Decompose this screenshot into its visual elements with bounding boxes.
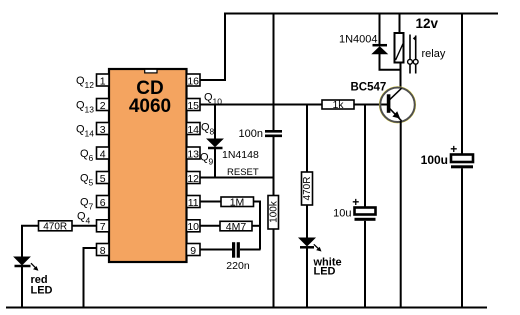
pin 11 <box>187 196 201 209</box>
svg-text:100n: 100n <box>239 128 263 140</box>
wire pin9 to 220n <box>200 249 232 251</box>
wire top +12v rail <box>224 13 498 15</box>
svg-text:4060: 4060 <box>129 96 171 117</box>
svg-text:8: 8 <box>100 245 106 257</box>
wire 1M to junction column <box>254 202 261 250</box>
svg-text:100k: 100k <box>269 200 280 223</box>
wire 4M7 to junction column <box>252 225 260 227</box>
pin 1 <box>97 74 110 87</box>
pin 9 <box>187 244 201 257</box>
pin 7 <box>97 220 110 233</box>
svg-text:15: 15 <box>187 100 199 112</box>
wire pin10 to 4M7 <box>200 225 220 227</box>
svg-text:5: 5 <box>100 173 106 185</box>
resistor 4M7 <box>220 221 252 233</box>
wire relay coil to transistor collector <box>400 63 402 89</box>
pin 8 <box>97 244 110 257</box>
svg-text:7: 7 <box>100 221 106 233</box>
wire 10u to ground rail <box>364 221 366 308</box>
resistor R3 1k <box>322 99 354 111</box>
resistor 470R (white LED) vertical <box>302 172 314 205</box>
wire 470R to white LED <box>306 205 308 239</box>
node Q14 label <box>76 124 94 139</box>
svg-text:1M: 1M <box>230 197 245 209</box>
wire 1N4004 anode down and over to coil <box>380 54 402 70</box>
pin 2 <box>97 99 110 112</box>
node Q6 label <box>80 148 94 163</box>
relay K1 coil <box>395 33 405 63</box>
svg-text:12: 12 <box>85 80 95 90</box>
svg-text:8: 8 <box>210 127 215 137</box>
transistor Q1 BC547 <box>380 87 416 123</box>
LED D4 white <box>299 238 321 252</box>
diode D2 1N4148 <box>207 139 222 148</box>
capacitor C2 100n <box>239 128 282 140</box>
svg-text:1: 1 <box>100 75 106 87</box>
svg-text:12v: 12v <box>416 16 439 31</box>
svg-text:13: 13 <box>187 148 199 160</box>
svg-text:4: 4 <box>100 148 106 160</box>
wire +12v rail to relay coil <box>399 14 401 34</box>
wire pin16 to +12v rail <box>200 14 225 81</box>
svg-text:6: 6 <box>100 197 106 209</box>
svg-text:4: 4 <box>86 216 91 226</box>
wire 220n to junction column <box>240 249 261 251</box>
svg-text:7: 7 <box>89 202 94 212</box>
svg-text:3: 3 <box>100 124 106 136</box>
svg-text:9: 9 <box>190 245 196 257</box>
pin 16 <box>187 74 201 87</box>
label 1N4148 <box>222 149 259 161</box>
node Q12 label <box>76 75 94 90</box>
wire +12v drop to 100n / 100k column <box>273 14 275 131</box>
node Q13 label <box>76 100 94 115</box>
pin 13 <box>187 147 201 160</box>
node Q9 label <box>200 152 214 167</box>
label relay <box>422 48 446 60</box>
svg-text:470R: 470R <box>302 177 313 201</box>
svg-text:RESET: RESET <box>227 167 259 178</box>
capacitor C3 220n <box>226 242 250 272</box>
wire 470R white-led branch from Q10 wire <box>306 105 308 173</box>
wire +12v rail right drop to 100u <box>461 14 463 155</box>
wire 1N4004 branch from +12v rail <box>379 14 381 46</box>
wire Q10 pin15 to transistor base <box>200 104 388 106</box>
svg-text:10: 10 <box>187 221 199 233</box>
svg-text:LED: LED <box>31 284 53 296</box>
label RESET <box>227 167 259 178</box>
label 1N4004 <box>339 34 378 46</box>
wire 100u to ground rail <box>461 168 463 307</box>
resistor 470R (red LED) horizontal <box>39 221 73 233</box>
relay K1 contact left <box>408 35 413 74</box>
IC U1 CD4060 body <box>109 69 187 262</box>
label BC547 <box>351 82 387 94</box>
svg-text:220n: 220n <box>226 260 250 272</box>
wire bottom ground rail <box>6 307 487 309</box>
wire 100n to 100k <box>273 137 275 196</box>
node Q8 label <box>201 122 215 137</box>
wire red LED to ground rail <box>21 267 23 308</box>
wire transistor emitter to ground rail <box>400 121 402 308</box>
diode D1 1N4004 (flyback, cathode up) <box>373 45 388 54</box>
label white LED <box>313 257 342 278</box>
pin 14 <box>187 123 201 136</box>
wire white LED to ground rail <box>306 249 308 308</box>
svg-text:10u: 10u <box>333 208 351 220</box>
wire pin11 to 1M <box>200 201 221 203</box>
svg-text:4M7: 4M7 <box>226 221 247 233</box>
wire 1N4148 branch from Q10 wire <box>214 105 216 140</box>
relay K1 contact right with armature arrow <box>413 35 418 73</box>
pin 5 <box>97 172 110 185</box>
label 12v supply <box>416 16 439 31</box>
svg-text:13: 13 <box>85 105 95 115</box>
svg-text:12: 12 <box>187 173 199 185</box>
svg-text:16: 16 <box>187 75 199 87</box>
node Q10 label <box>204 92 222 107</box>
wire 470R left down to red LED <box>22 226 39 258</box>
pin 6 <box>97 196 110 209</box>
wire 470R to pin7 <box>72 225 97 227</box>
wire 100k to ground rail <box>273 229 275 308</box>
svg-text:6: 6 <box>89 153 94 163</box>
svg-text:1N4148: 1N4148 <box>222 149 259 161</box>
pin 3 <box>97 123 110 136</box>
svg-text:1N4004: 1N4004 <box>339 34 378 46</box>
LED D3 red <box>14 257 38 271</box>
svg-text:relay: relay <box>422 48 446 60</box>
pin 4 <box>97 147 110 160</box>
wire RESET pin12 to 100k line <box>200 177 274 179</box>
capacitor C4 10u electrolytic <box>333 195 375 221</box>
svg-text:11: 11 <box>188 197 199 209</box>
svg-text:9: 9 <box>209 157 214 167</box>
capacitor C5 100u electrolytic <box>421 142 473 168</box>
pin 15 <box>187 99 201 112</box>
svg-text:LED: LED <box>314 265 336 277</box>
node Q7 label <box>80 197 94 212</box>
label red LED <box>31 274 53 296</box>
pin 12 <box>187 172 201 185</box>
pin 10 <box>187 220 201 233</box>
svg-text:14: 14 <box>85 129 95 139</box>
svg-text:BC547: BC547 <box>351 82 387 94</box>
svg-text:1k: 1k <box>332 99 344 111</box>
svg-text:100u: 100u <box>421 153 448 167</box>
node Q5 label <box>80 173 94 188</box>
resistor 1M <box>221 197 254 209</box>
svg-text:470R: 470R <box>43 221 67 232</box>
wire 10u branch from base wire <box>364 105 366 208</box>
wire 1N4148 cathode to RESET wire <box>214 149 216 178</box>
svg-text:5: 5 <box>89 178 94 188</box>
resistor 100k (vertical) <box>268 196 280 230</box>
svg-text:2: 2 <box>100 100 106 112</box>
node Q4 label <box>77 211 91 226</box>
wire pin8 to ground rail <box>84 248 97 308</box>
svg-text:14: 14 <box>187 124 199 136</box>
